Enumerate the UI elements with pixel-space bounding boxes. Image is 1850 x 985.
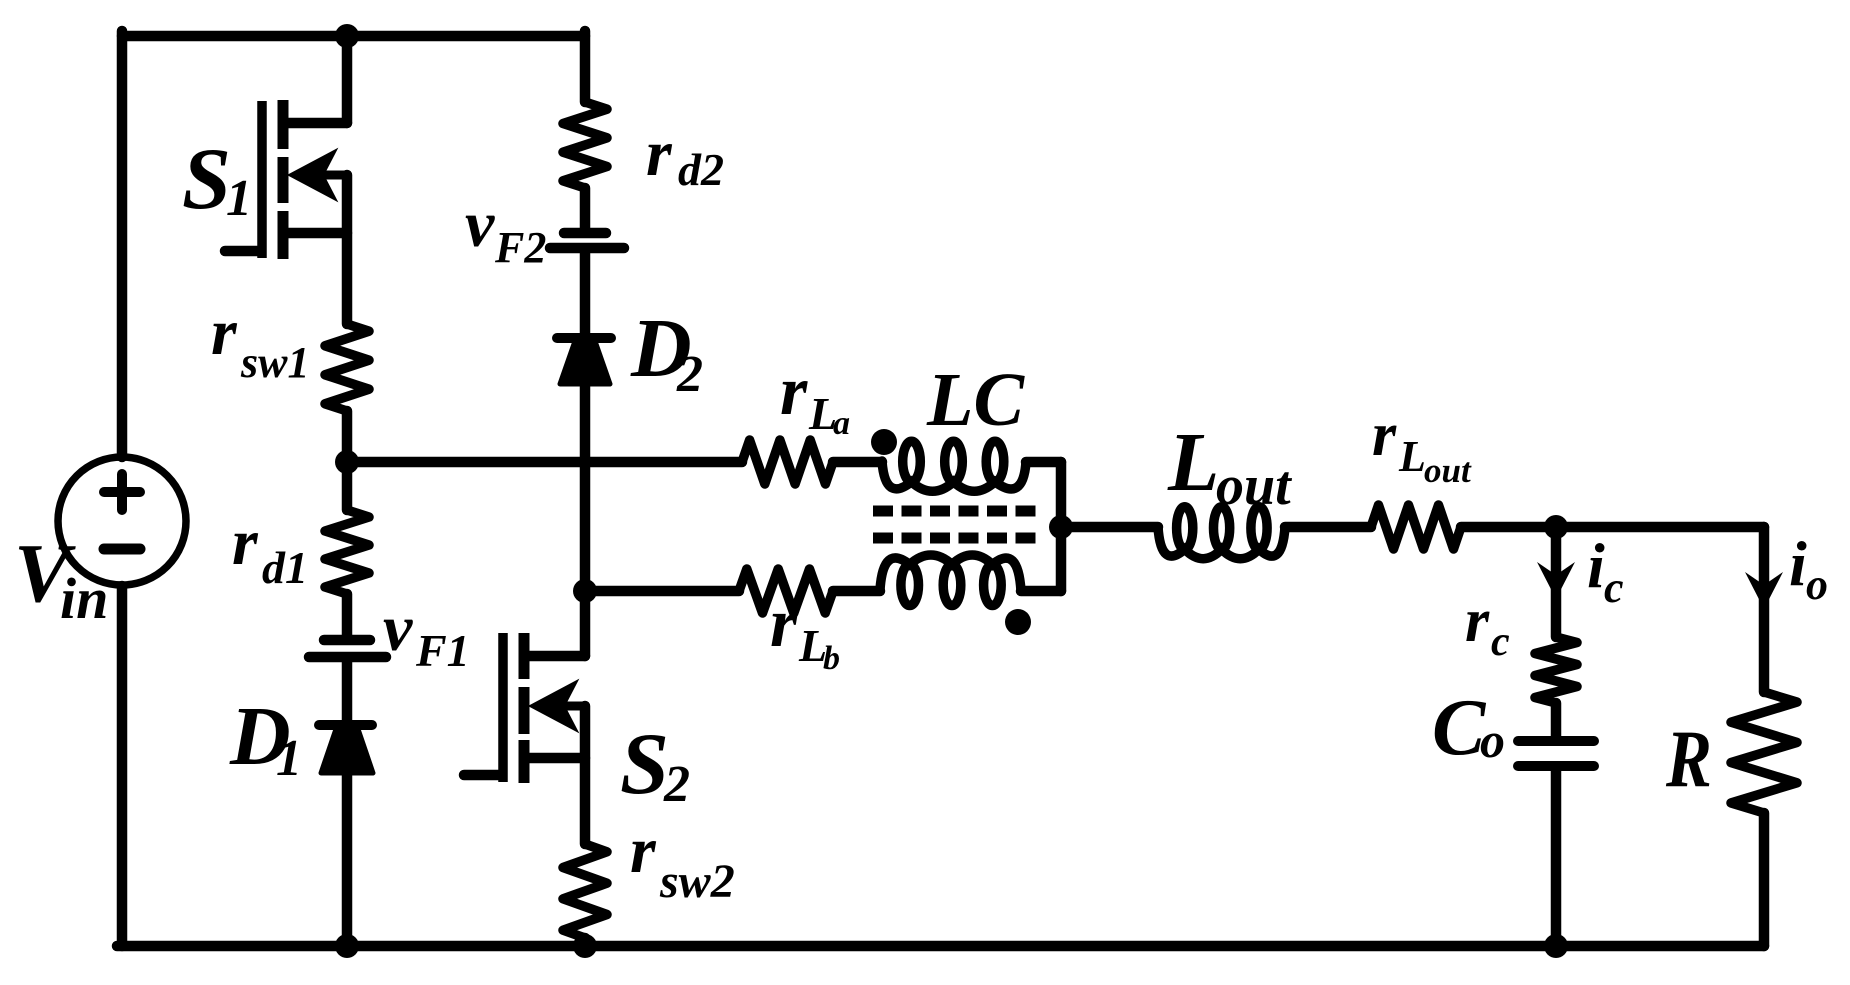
- resistor r_d1: [325, 510, 369, 594]
- resistor r_Lb: [739, 569, 833, 613]
- inductor LC core dashes: [873, 506, 1041, 517]
- node A junction: [335, 450, 359, 474]
- svg-text:b: b: [823, 640, 840, 677]
- svg-text:d1: d1: [262, 542, 308, 593]
- transistor S2 body arrow: [540, 702, 585, 711]
- wire D1 to bottom: [342, 731, 353, 946]
- svg-text:c: c: [1491, 619, 1510, 665]
- svg-text:S: S: [182, 131, 231, 228]
- transistor S1 gate bar: [257, 101, 267, 258]
- svg-text:1: 1: [276, 730, 302, 787]
- svg-text:r: r: [211, 296, 238, 369]
- node C junction: [1544, 515, 1568, 539]
- svg-text:i: i: [1587, 530, 1605, 601]
- node bottom-left junction: [335, 934, 359, 958]
- svg-text:C: C: [1432, 684, 1487, 772]
- diode D1 cathode bar: [319, 720, 372, 730]
- transistor S1 body arrow: [300, 171, 347, 180]
- svg-text:2: 2: [676, 346, 703, 403]
- wire Co to bottom: [1551, 771, 1562, 946]
- resistor R load: [1731, 692, 1797, 813]
- wire left rail lower: [117, 586, 128, 946]
- resistor r_Lout: [1371, 505, 1461, 549]
- svg-text:out: out: [1216, 455, 1292, 517]
- current arrow i_c: [1537, 562, 1575, 599]
- svg-text:d2: d2: [678, 144, 724, 195]
- wire D2 to node B: [580, 344, 591, 591]
- inductor LC dot b: [1005, 609, 1031, 635]
- battery vF2 short plate: [564, 228, 606, 239]
- node top junction: [335, 24, 359, 48]
- capacitor Co bottom plate: [1518, 761, 1594, 771]
- wire LC bottom to center: [1021, 586, 1061, 597]
- svg-text:i: i: [1789, 528, 1807, 599]
- resistor r_sw2: [563, 844, 607, 938]
- svg-text:L: L: [1167, 416, 1219, 509]
- svg-text:F2: F2: [494, 223, 546, 272]
- svg-text:sw2: sw2: [659, 855, 735, 908]
- diode D1 triangle: [321, 729, 373, 773]
- wire node B to r_Lb: [585, 586, 739, 597]
- svg-text:LC: LC: [926, 358, 1025, 442]
- current arrow i_o: [1745, 572, 1783, 609]
- svg-text:r: r: [630, 814, 657, 887]
- wire r_d1 to vF1: [342, 594, 353, 637]
- node LC output junction: [1049, 515, 1073, 539]
- transistor S1 gate lead: [225, 246, 258, 257]
- resistor r_sw1: [325, 324, 369, 411]
- resistor r_c: [1535, 637, 1577, 703]
- svg-text:S: S: [620, 716, 669, 813]
- wire LC to Lout: [1061, 522, 1158, 533]
- wire r_d2 upper: [580, 31, 591, 102]
- wire LC top to center: [1026, 457, 1061, 468]
- resistor r_d2: [563, 102, 607, 188]
- svg-text:2: 2: [663, 756, 690, 813]
- svg-text:r: r: [780, 353, 808, 430]
- wire node C to corner: [1556, 522, 1764, 533]
- transistor S2 gate lead: [464, 770, 499, 781]
- svg-text:v: v: [383, 592, 413, 665]
- Vin minus sign: [104, 544, 140, 555]
- inductor LC winding a: [882, 461, 1026, 491]
- node bottom-right junction: [1544, 934, 1568, 958]
- svg-text:o: o: [1480, 712, 1505, 768]
- wire r_d1 upper: [342, 462, 353, 510]
- svg-text:L: L: [1398, 432, 1426, 481]
- wire node C down: [1551, 527, 1562, 637]
- transistor S2 gate bar: [498, 633, 508, 782]
- svg-text:v: v: [465, 188, 495, 261]
- diode D2 triangle: [560, 344, 610, 384]
- wire corner down: [1759, 527, 1770, 692]
- wire vF2 to D2: [580, 253, 591, 339]
- svg-text:r: r: [646, 117, 673, 190]
- resistor r_La: [742, 440, 833, 484]
- transistor S2 channel segments: [519, 633, 530, 679]
- transistor S1 channel segments: [278, 100, 289, 149]
- svg-text:c: c: [1604, 563, 1624, 612]
- capacitor Co top plate: [1518, 736, 1594, 746]
- svg-text:sw1: sw1: [240, 338, 309, 387]
- node B junction: [573, 579, 597, 603]
- transistor S2 source lead: [524, 753, 585, 764]
- svg-text:out: out: [1424, 451, 1472, 490]
- node bottom-middle junction: [573, 934, 597, 958]
- wire node A to r_La: [347, 457, 742, 468]
- svg-text:r: r: [770, 585, 798, 662]
- svg-text:r: r: [1372, 401, 1397, 469]
- voltage source Vin circle: [58, 457, 186, 585]
- svg-text:R: R: [1665, 715, 1712, 805]
- svg-text:r: r: [232, 506, 259, 579]
- inductor Lout: [1158, 527, 1285, 559]
- svg-text:r: r: [1465, 587, 1490, 655]
- wire left rail upper: [117, 31, 128, 457]
- wire r_La to LC: [833, 457, 882, 468]
- wire vF1 to D1: [342, 661, 353, 721]
- svg-text:o: o: [1806, 560, 1828, 609]
- inductor LC winding b: [880, 555, 1021, 591]
- svg-text:1: 1: [226, 170, 252, 227]
- svg-text:a: a: [833, 405, 850, 442]
- battery vF2 long plate: [550, 243, 624, 254]
- wire r_Lout to node C: [1461, 522, 1556, 533]
- wire r_c to Co: [1551, 703, 1562, 737]
- diode D2 cathode bar: [557, 333, 611, 343]
- battery vF1 long plate: [309, 652, 386, 663]
- wire bottom rail: [117, 941, 1764, 952]
- wire r_d2 to vF2: [580, 188, 591, 230]
- wire top rail: [122, 31, 585, 42]
- inductor LC dot a: [871, 429, 897, 455]
- wire R to bottom: [1759, 813, 1770, 946]
- svg-text:F1: F1: [415, 625, 470, 676]
- transistor S1 source lead: [283, 228, 347, 239]
- transistor S1 drain lead: [288, 118, 347, 129]
- wire r_Lb to LC: [833, 586, 880, 597]
- battery vF1 short plate: [324, 635, 370, 646]
- svg-text:in: in: [60, 566, 108, 631]
- wire Lout to r_Lout: [1285, 522, 1371, 533]
- transistor S2 drain lead: [580, 591, 591, 656]
- Vin plus sign: [104, 487, 140, 497]
